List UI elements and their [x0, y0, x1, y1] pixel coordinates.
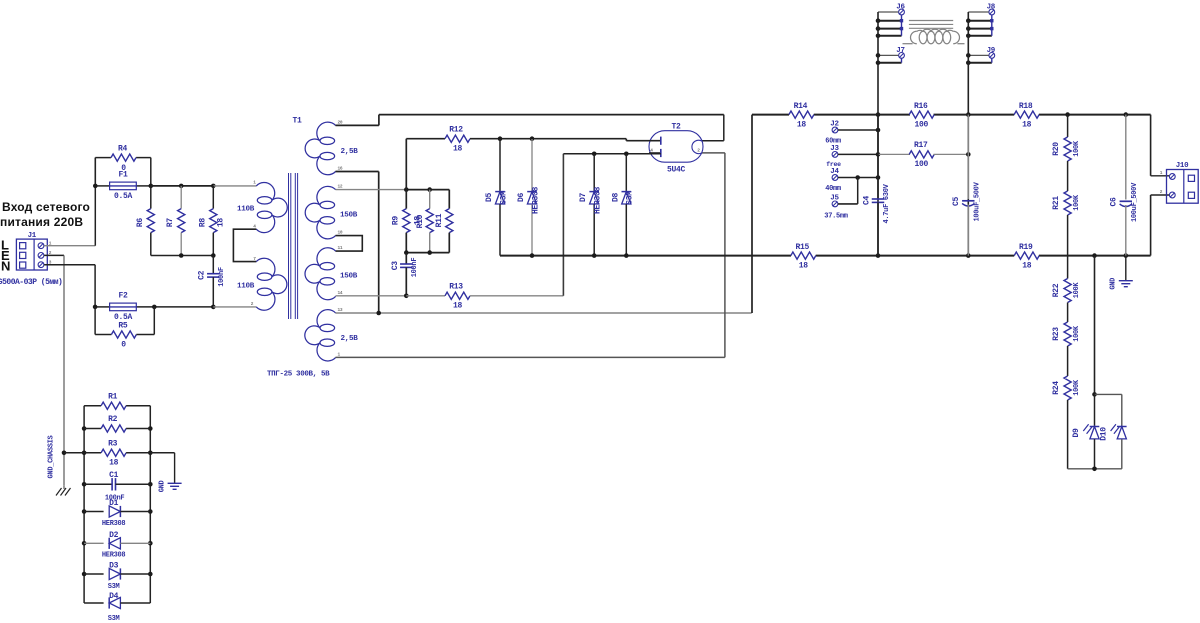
svg-text:R15: R15 [796, 243, 810, 252]
svg-text:R22: R22 [1052, 283, 1061, 297]
svg-text:S3M: S3M [108, 583, 120, 591]
wire J6 stub [878, 11, 898, 13]
wire L pin to fuse net [44, 245, 95, 247]
inductor choke L1 [909, 20, 953, 22]
svg-text:100K: 100K [1073, 325, 1081, 342]
wire D7 net [563, 153, 660, 155]
wire corner to tube filament right upper [723, 115, 725, 141]
connector J10 [1167, 170, 1199, 204]
svg-text:100K: 100K [1073, 140, 1081, 157]
svg-text:F2: F2 [118, 292, 128, 301]
svg-text:18: 18 [797, 120, 807, 129]
fuse F2 [95, 306, 110, 308]
resistor R20 [1067, 115, 1069, 137]
wire pin12 to R9 top net [336, 189, 407, 191]
diode D6 [531, 139, 533, 192]
svg-text:S3M: S3M [499, 191, 508, 205]
svg-text:N: N [1, 259, 10, 274]
T1 core [288, 173, 290, 319]
resistor R1 [84, 405, 101, 407]
wire E net to R3 row [62, 451, 67, 456]
resistor R12 [405, 139, 407, 190]
svg-text:R11: R11 [435, 213, 444, 227]
capacitor C3 [405, 253, 407, 264]
wire F1 junctions [94, 158, 96, 186]
svg-text:R6: R6 [136, 218, 145, 228]
resistor R9 [403, 209, 410, 233]
T1 secondary 150V winding 1 [317, 186, 336, 205]
wire J5 stub [838, 203, 858, 205]
svg-text:100K: 100K [1073, 379, 1081, 396]
svg-text:100nF: 100nF [218, 267, 226, 287]
diode D8 [625, 154, 627, 192]
capacitor C2 [212, 256, 214, 274]
svg-text:100uF_500V: 100uF_500V [973, 181, 981, 221]
svg-text:16: 16 [338, 166, 343, 172]
wire R17 to C5 riser [934, 153, 969, 155]
svg-text:150В: 150В [340, 273, 358, 281]
svg-text:R21: R21 [1052, 196, 1061, 210]
svg-text:GND_CHASSIS: GND_CHASSIS [48, 435, 56, 478]
svg-text:14: 14 [338, 290, 343, 296]
svg-text:R8: R8 [198, 218, 207, 228]
wire J9 stub [968, 54, 988, 56]
resistor R15 [791, 252, 816, 259]
resistor R24 [1064, 376, 1071, 400]
svg-text:4.7uF 630V: 4.7uF 630V [883, 183, 891, 223]
svg-text:100: 100 [914, 160, 928, 169]
wire N pin to F2 [44, 264, 95, 266]
svg-text:D8: D8 [611, 193, 620, 203]
resistor R17 [909, 151, 934, 158]
wire pin16 down [336, 171, 379, 173]
svg-text:110В: 110В [237, 283, 255, 291]
wire pin14 to R13 [336, 295, 407, 297]
svg-text:0.5A: 0.5A [114, 192, 133, 201]
svg-text:2,5В: 2,5В [341, 148, 359, 156]
resistor R14 [789, 111, 814, 118]
svg-text:D9: D9 [1072, 428, 1081, 438]
svg-text:D4: D4 [109, 592, 119, 601]
resistor R4 [95, 157, 111, 159]
connector J1 [16, 239, 47, 270]
resistor R21 [1064, 191, 1071, 215]
T1 primary winding 110V bottom [256, 258, 275, 276]
svg-text:11: 11 [338, 245, 343, 251]
svg-text:R19: R19 [1019, 243, 1033, 252]
svg-text:S3M: S3M [626, 191, 635, 205]
svg-text:S3M: S3M [108, 615, 120, 623]
wire LED feed [1094, 256, 1096, 395]
svg-text:D1: D1 [109, 499, 119, 508]
svg-text:18: 18 [453, 145, 463, 154]
svg-text:питания 220В: питания 220В [0, 215, 83, 229]
svg-text:J10: J10 [1176, 162, 1189, 170]
svg-text:R10: R10 [416, 214, 425, 228]
svg-text:F1: F1 [118, 171, 128, 180]
wire J8 ties [968, 20, 992, 22]
diode D7 [593, 154, 595, 192]
capacitor C4 [877, 115, 879, 199]
wire ladder right rail [149, 406, 151, 603]
svg-text:R2: R2 [108, 415, 118, 424]
svg-text:R14: R14 [794, 102, 808, 111]
chassis ground symbol [63, 485, 65, 489]
wire pin13 net to B+ riser [336, 312, 752, 314]
resistor R18 [1014, 111, 1039, 118]
svg-text:13: 13 [338, 307, 343, 313]
svg-text:18: 18 [1022, 120, 1032, 129]
T1 secondary 2.5V bottom winding [317, 310, 336, 328]
wire B+ rail [752, 114, 789, 116]
wire F2 to transformer pin2 [154, 306, 213, 308]
wire R6-R8 bottoms [151, 255, 214, 257]
svg-text:HER308: HER308 [102, 520, 126, 528]
T1 secondary 150V winding 2 [317, 248, 336, 266]
svg-text:Вход сетевого: Вход сетевого [2, 200, 90, 214]
wire pin20 to filament top [336, 124, 379, 126]
svg-text:100K: 100K [1073, 282, 1081, 299]
svg-text:110В: 110В [237, 205, 255, 213]
wire left jumper riser [877, 12, 879, 256]
wire R12 to tube plate [470, 138, 626, 140]
svg-text:37.5mm: 37.5mm [824, 212, 848, 220]
tube T2 [649, 131, 703, 163]
wire right jumper riser [967, 12, 969, 256]
svg-text:HER308: HER308 [531, 187, 540, 215]
resistor R16 [909, 111, 934, 118]
wire J9 tie [968, 62, 992, 64]
wire J8 stub [968, 11, 988, 13]
svg-text:C2: C2 [198, 270, 207, 280]
svg-text:20: 20 [338, 119, 343, 125]
svg-text:D5: D5 [485, 193, 494, 203]
led D9 [1094, 394, 1096, 426]
wire 0V rail [500, 255, 791, 257]
resistor R3 [64, 452, 101, 454]
resistor R22 [1064, 279, 1071, 303]
wire LED return [1068, 468, 1122, 470]
svg-text:R24: R24 [1052, 381, 1061, 395]
svg-text:GND: GND [1110, 278, 1118, 290]
svg-text:C1: C1 [109, 471, 119, 480]
fuse F1 [95, 185, 109, 187]
svg-text:100K: 100K [1073, 194, 1081, 211]
svg-text:ТПГ-25 300В, 5В: ТПГ-25 300В, 5В [267, 371, 330, 379]
diode D2 [84, 542, 104, 544]
diode D3 [84, 573, 104, 575]
svg-text:R7: R7 [166, 218, 175, 228]
wire J7 tie [878, 62, 902, 64]
wire R13 to D7 net [470, 295, 563, 297]
svg-text:D2: D2 [109, 531, 119, 540]
svg-text:D7: D7 [579, 193, 588, 203]
svg-text:18: 18 [217, 218, 226, 228]
svg-text:R18: R18 [1019, 102, 1033, 111]
svg-text:R4: R4 [118, 145, 128, 154]
svg-text:R1: R1 [108, 392, 118, 401]
wire pin1 to filament bottom [336, 356, 725, 358]
svg-text:12: 12 [338, 184, 343, 190]
svg-text:18: 18 [1022, 261, 1032, 270]
wire J3 to R17 [838, 153, 878, 155]
wire J4 stub [838, 177, 878, 179]
svg-text:C3: C3 [391, 261, 400, 271]
resistor R10 [429, 190, 431, 209]
wire primary series jog [233, 229, 256, 261]
svg-text:HER308: HER308 [102, 552, 126, 560]
wire LED bridge [1095, 393, 1122, 395]
svg-text:D6: D6 [517, 193, 526, 203]
svg-text:J1: J1 [28, 232, 37, 240]
svg-text:D10: D10 [1099, 427, 1108, 441]
svg-text:0: 0 [121, 341, 126, 350]
svg-text:R12: R12 [449, 125, 463, 134]
svg-text:5U4C: 5U4C [667, 165, 686, 174]
svg-text:C4: C4 [862, 196, 871, 206]
svg-text:18: 18 [799, 261, 809, 270]
capacitor C1 [84, 483, 112, 485]
svg-text:R3: R3 [108, 439, 118, 448]
svg-text:C6: C6 [1110, 197, 1119, 207]
wire E pin to chassis [44, 254, 64, 256]
svg-text:R23: R23 [1052, 327, 1061, 341]
wire ladder left rail [83, 406, 85, 603]
resistor R23 [1064, 322, 1071, 346]
resistor R11 [448, 190, 450, 209]
ground GND mid [174, 453, 176, 484]
resistor R8 [212, 186, 214, 209]
svg-text:R13: R13 [449, 282, 463, 291]
wire R9-R11 bottoms [406, 252, 449, 254]
wire secondary 150V series jog [336, 236, 363, 252]
svg-text:R17: R17 [914, 141, 928, 150]
diode D5 [499, 139, 501, 192]
T1 secondary 2.5V top winding [317, 122, 336, 141]
svg-text:18: 18 [109, 459, 119, 468]
svg-text:D3: D3 [109, 562, 119, 571]
capacitor C5 [967, 115, 969, 199]
resistor R19 [1014, 252, 1039, 259]
svg-text:GND: GND [159, 480, 167, 492]
svg-text:R20: R20 [1052, 142, 1061, 156]
svg-text:T1: T1 [292, 117, 302, 126]
svg-text:100: 100 [914, 120, 928, 129]
svg-text:10: 10 [338, 230, 343, 236]
wire J7 stub [878, 54, 898, 56]
diode D4 [84, 602, 104, 604]
wire rail to J10 pin2 [1150, 195, 1152, 256]
svg-text:100uF_500V: 100uF_500V [1131, 182, 1139, 222]
svg-text:100nF: 100nF [411, 258, 419, 278]
resistor R6 [150, 186, 152, 209]
wire J6 ties [878, 20, 902, 22]
svg-text:HER308: HER308 [594, 187, 603, 215]
T1 primary winding 110V top [256, 182, 274, 200]
resistor R2 [84, 428, 101, 430]
svg-text:T2: T2 [671, 123, 681, 132]
wire R3 to GND [150, 452, 174, 454]
led D10 [1117, 426, 1127, 428]
resistor R5 [94, 307, 96, 335]
svg-text:R5: R5 [118, 322, 128, 331]
ground GND right [1125, 256, 1127, 281]
resistor R13 [445, 292, 470, 299]
wire F1 to transformer pin1 [151, 185, 214, 187]
capacitor C6 [1125, 115, 1127, 200]
svg-text:150В: 150В [340, 212, 358, 220]
svg-text:R16: R16 [914, 102, 928, 111]
svg-text:R9: R9 [391, 216, 400, 226]
wire rail to J10 pin1 [1150, 115, 1152, 176]
diode D1 [84, 511, 104, 513]
svg-text:18: 18 [453, 302, 463, 311]
wire J2 stub [838, 129, 878, 131]
svg-text:2,5В: 2,5В [341, 335, 359, 343]
resistor R7 [180, 186, 182, 209]
svg-text:DG500A-03P (5мм): DG500A-03P (5мм) [0, 278, 62, 287]
svg-text:C5: C5 [952, 197, 961, 207]
svg-text:40mm: 40mm [825, 185, 841, 193]
